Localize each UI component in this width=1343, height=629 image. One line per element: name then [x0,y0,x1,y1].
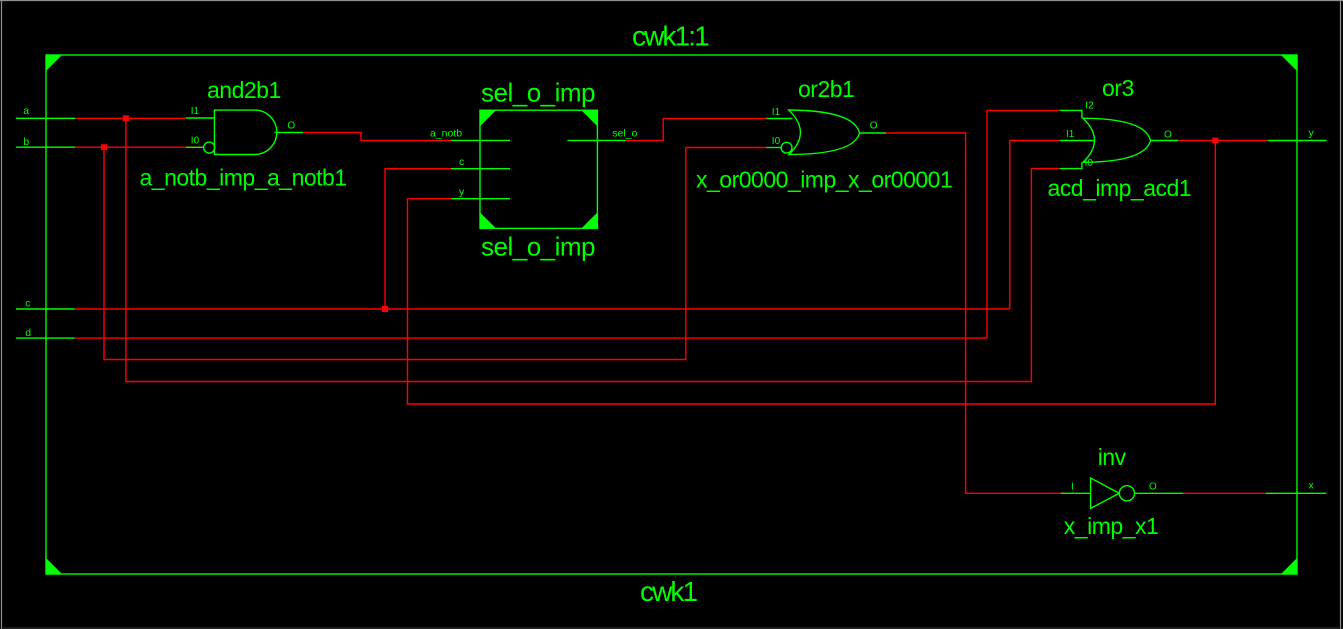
block corner bottom-right [581,212,597,228]
svg-text:I0: I0 [1085,158,1094,169]
svg-text:I: I [1071,482,1074,493]
pin y [451,198,510,200]
svg-text:I1: I1 [191,106,200,117]
svg-text:sel_o_imp: sel_o_imp [481,231,595,261]
bubble on output [1119,486,1134,501]
wire and2b1 O to sel_o_imp a_notb [303,132,451,140]
svg-text:sel_o_imp: sel_o_imp [481,78,595,108]
svg-text:I1: I1 [772,107,781,118]
wire net d (red) [75,337,987,339]
wire net a (red) [75,117,186,119]
block sel_o_imp [430,78,638,262]
svg-text:x_imp_x1: x_imp_x1 [1064,513,1158,539]
inverter inv [1061,444,1183,539]
pin O [1151,140,1179,142]
pin O [274,131,303,133]
wire net y from or3 O [1178,140,1268,142]
svg-text:and2b1: and2b1 [207,77,281,103]
svg-text:a_notb: a_notb [430,128,462,140]
pin I1 [186,117,214,119]
svg-text:c: c [25,298,30,310]
svg-text:sel_o: sel_o [612,128,637,140]
pin I2 [1060,110,1082,118]
svg-text:b: b [23,136,29,148]
wire c to or3 I1 [1010,141,1060,310]
svg-text:d: d [25,327,31,339]
input pin d [16,327,75,339]
svg-text:a: a [23,105,29,117]
wire y feedback to sel_o_imp pin y [408,141,1216,405]
svg-text:y: y [1309,127,1315,139]
output pin y [1268,127,1327,141]
pin O [1135,492,1184,494]
corner marker top-right [1281,55,1297,71]
svg-text:I0: I0 [191,136,200,147]
wire d to or3 I2 [987,110,1060,338]
input pin c [16,298,75,310]
svg-text:or3: or3 [1102,75,1134,101]
wire sel_o to or2b1 I1 [626,119,767,141]
input pin a [16,105,75,118]
wire b branch to or2b1 I0 [104,147,766,359]
wire net c (red) [75,308,1010,310]
pin I0 [186,146,204,148]
block corner top-left [480,110,496,126]
svg-text:cwk1: cwk1 [640,576,698,607]
corner marker bottom-left [46,558,62,574]
sheet border cwk1 [46,55,1297,574]
wire inv O to pin x [1183,492,1266,494]
pin O [860,132,887,134]
svg-text:c: c [459,156,464,168]
output pin x [1266,479,1326,493]
wire net b (red) [75,146,204,148]
bubble on I0 [204,142,215,153]
svg-text:a_notb_imp_a_notb1: a_notb_imp_a_notb1 [140,164,347,190]
pin I1 [766,118,792,120]
svg-text:x_or0000_imp_x_or00001: x_or0000_imp_x_or00001 [696,167,952,193]
block corner bottom-left [480,212,496,228]
bubble on I0 [781,142,792,153]
OR gate or2b1 [696,76,952,193]
wire c branch to sel_o_imp pin c [385,169,451,309]
svg-text:inv: inv [1098,444,1127,470]
junction on net y [1212,138,1218,144]
block corner top-right [581,110,597,126]
corner marker top-left [46,55,62,71]
wire or2b1 O to inv I [886,133,1061,493]
junction on net a [123,115,129,121]
wire a branch to or3 I0 [126,118,1060,381]
OR gate or3 [1048,75,1192,201]
svg-text:O: O [1149,482,1157,493]
pin I [1061,492,1091,494]
pin sel_o [567,139,625,141]
corner marker bottom-right [1281,558,1297,574]
svg-text:O: O [1164,129,1172,140]
svg-text:O: O [287,120,295,131]
svg-text:x: x [1309,479,1315,491]
pin c [451,168,510,170]
pin I0 [766,147,781,149]
svg-text:I1: I1 [1066,129,1075,140]
svg-text:y: y [459,186,465,198]
junction on net b [101,144,107,150]
junction on net c [382,306,388,312]
pin a_notb [451,139,510,141]
svg-text:O: O [870,120,878,131]
AND gate and2b1 [140,77,347,190]
svg-text:I2: I2 [1085,101,1094,112]
svg-text:I0: I0 [772,136,781,147]
pin I0 [1060,162,1082,168]
input pin b [16,136,75,148]
pin I1 [1060,140,1095,142]
svg-text:cwk1:1: cwk1:1 [632,21,709,52]
svg-text:or2b1: or2b1 [798,76,854,102]
svg-text:acd_imp_acd1: acd_imp_acd1 [1048,175,1192,201]
